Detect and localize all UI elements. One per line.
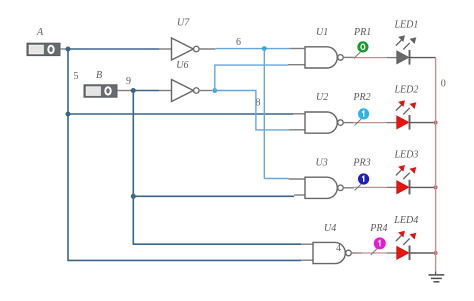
svg-text:6: 6 — [236, 37, 241, 48]
probe PR1 — [353, 27, 371, 59]
input B — [84, 70, 131, 97]
wire B to U6 input — [133, 90, 171, 92]
led LED3 — [394, 150, 419, 195]
svg-text:U3: U3 — [316, 157, 328, 168]
wire U3 output to LED3 — [344, 186, 397, 188]
wire LED2 to ground bus — [409, 122, 436, 124]
svg-text:PR4: PR4 — [369, 223, 387, 234]
wire net6 to U3 upper input — [264, 178, 305, 181]
node A junction — [66, 47, 71, 52]
node B row3 junction — [131, 194, 136, 199]
wire LED1 to ground bus — [409, 57, 436, 59]
wire net6 vertical — [263, 49, 265, 179]
svg-text:PR2: PR2 — [352, 92, 370, 103]
nand gate U1 — [305, 27, 343, 68]
wire ground bus vertical — [435, 58, 437, 272]
nand gate U4 — [313, 223, 351, 264]
node bus row3 junction — [434, 185, 438, 189]
svg-text:PR1: PR1 — [353, 27, 371, 38]
probe PR4 — [369, 223, 387, 255]
wire A to U2 upper input — [68, 113, 305, 115]
node A row2 junction — [66, 112, 71, 117]
nand gate U2 — [305, 92, 343, 133]
svg-text:U6: U6 — [176, 60, 188, 71]
probe PR2 — [352, 92, 370, 125]
wire net8 up branch to U1 lower input — [215, 65, 305, 91]
wire U2 output to LED2 — [344, 122, 397, 124]
node bus row4 junction — [434, 251, 438, 255]
svg-text:5: 5 — [74, 71, 79, 82]
led LED2 — [394, 85, 419, 130]
wire U4 output to LED4 — [352, 252, 397, 254]
svg-text:U2: U2 — [316, 92, 328, 103]
svg-text:PR3: PR3 — [352, 157, 370, 168]
wire U6 output stub — [199, 90, 212, 92]
svg-text:LED4: LED4 — [393, 215, 418, 226]
wire A vertical — [67, 49, 69, 260]
svg-text:LED3: LED3 — [394, 150, 419, 161]
wire net6 U7 output to U1 upper input — [199, 48, 305, 51]
probe PR3 — [352, 157, 370, 190]
wire LED3 to ground bus — [409, 186, 436, 188]
svg-text:U7: U7 — [177, 18, 190, 29]
svg-text:B: B — [96, 70, 102, 81]
wire B vertical — [132, 91, 134, 245]
node bus row2 junction — [434, 121, 438, 125]
svg-text:4: 4 — [336, 243, 341, 254]
wire net8 right branch to U2 lower input — [215, 91, 306, 130]
wire U1 output to LED1 — [344, 56, 397, 58]
inverter U6 — [172, 60, 200, 102]
input A — [27, 27, 66, 56]
svg-text:U1: U1 — [316, 27, 328, 38]
wire A to U4 lower input — [67, 259, 313, 261]
svg-text:U4: U4 — [324, 223, 336, 234]
wire LED4 to ground bus — [409, 252, 436, 254]
wire B to U4 upper input — [133, 243, 313, 246]
svg-text:LED2: LED2 — [394, 85, 419, 96]
nand gate U3 — [305, 157, 343, 198]
led LED1 — [394, 19, 419, 64]
svg-text:A: A — [36, 27, 44, 38]
svg-text:LED1: LED1 — [394, 19, 419, 30]
node B junction — [131, 88, 136, 93]
svg-text:0: 0 — [441, 79, 446, 90]
inverter U7 — [172, 18, 200, 61]
wire A to U7 input — [68, 48, 172, 50]
ground — [429, 272, 445, 282]
node net8 junction — [212, 88, 217, 93]
wire B to U3 lower input — [133, 195, 305, 196]
node net6 junction — [262, 46, 267, 51]
led LED4 — [393, 215, 418, 260]
svg-text:9: 9 — [126, 76, 131, 87]
